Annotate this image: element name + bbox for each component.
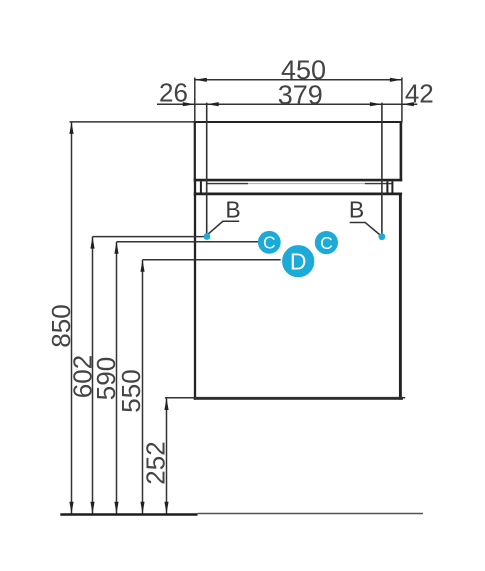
- arrow 850 bottom: [69, 502, 73, 514]
- dimension line 550: [142, 260, 144, 514]
- arrow 602 top: [90, 237, 94, 249]
- extension line 550 to D circle: [143, 259, 283, 261]
- dimension line 450: [195, 79, 402, 81]
- washbasin left edge: [194, 121, 196, 181]
- basin underside thin line right dark segment: [365, 183, 393, 185]
- arrow 26 left (outside, pointing right): [183, 102, 195, 106]
- leader line B left: [208, 221, 240, 234]
- extension line 602 to left hinge dot: [93, 236, 206, 238]
- marker circle C right: [315, 231, 338, 254]
- extension line 590 to C circle: [117, 241, 259, 243]
- dimension line 252: [166, 398, 168, 514]
- basin underside thin line (light middle): [206, 183, 393, 185]
- svg-text:550: 550: [116, 369, 146, 412]
- hinge dot B right: [379, 233, 386, 240]
- right mounting tick 1: [386, 181, 388, 193]
- dimension line 850: [71, 122, 73, 514]
- arrow 42 right (outside, pointing left): [402, 102, 414, 106]
- cabinet door top edge: [194, 193, 402, 196]
- washbasin right edge: [400, 121, 403, 181]
- washbasin bottom edge: [194, 179, 403, 182]
- dimension line 602: [92, 237, 94, 514]
- arrow 602 bottom: [90, 502, 94, 514]
- arrow 379 right (pointing right): [370, 102, 382, 106]
- cabinet left edge: [194, 181, 196, 400]
- svg-text:B: B: [349, 197, 364, 223]
- basin underside thin line left dark segment: [206, 183, 248, 185]
- arrow 850 top: [69, 122, 73, 134]
- left mounting tick: [200, 181, 202, 193]
- washbasin top edge: [194, 121, 403, 123]
- svg-text:B: B: [225, 197, 240, 223]
- svg-text:C: C: [320, 233, 333, 253]
- svg-text:C: C: [263, 233, 276, 253]
- marker circle D: [281, 244, 315, 278]
- arrow 550 top: [140, 260, 144, 272]
- floor line thick segment: [60, 513, 197, 515]
- svg-text:252: 252: [141, 441, 171, 484]
- extension line 379-right through basin to hinge dot: [381, 103, 383, 235]
- extension line cabinet bottom: [165, 397, 405, 399]
- right mounting tick 2: [391, 181, 393, 193]
- cabinet bottom edge: [194, 397, 403, 400]
- floor line thin segment: [198, 513, 423, 515]
- extension line top-left (850 to basin top): [70, 121, 197, 123]
- arrow 450 right: [390, 78, 402, 82]
- dimension line 26/379/42: [157, 103, 417, 105]
- extension line 379-left through basin to hinge dot: [206, 103, 208, 234]
- cabinet right edge: [399, 193, 402, 400]
- arrow 590 bottom: [114, 502, 118, 514]
- extension line 450-left above basin: [194, 78, 196, 123]
- marker circle C left: [258, 231, 281, 254]
- svg-text:379: 379: [278, 80, 323, 110]
- svg-text:42: 42: [405, 78, 434, 108]
- arrow 252 top: [164, 398, 168, 410]
- hinge dot B left: [204, 233, 211, 240]
- leader line B right: [350, 223, 382, 237]
- svg-text:26: 26: [159, 78, 188, 108]
- arrow 550 bottom: [140, 502, 144, 514]
- svg-text:850: 850: [46, 304, 76, 347]
- arrow 590 top: [114, 242, 118, 254]
- arrow 450 left: [195, 78, 207, 82]
- extension line 450-right above basin: [401, 78, 403, 123]
- arrow 252 bottom: [164, 502, 168, 514]
- arrow 379 left (pointing left): [207, 102, 219, 106]
- dimension line 590: [116, 242, 118, 514]
- svg-text:D: D: [290, 248, 307, 274]
